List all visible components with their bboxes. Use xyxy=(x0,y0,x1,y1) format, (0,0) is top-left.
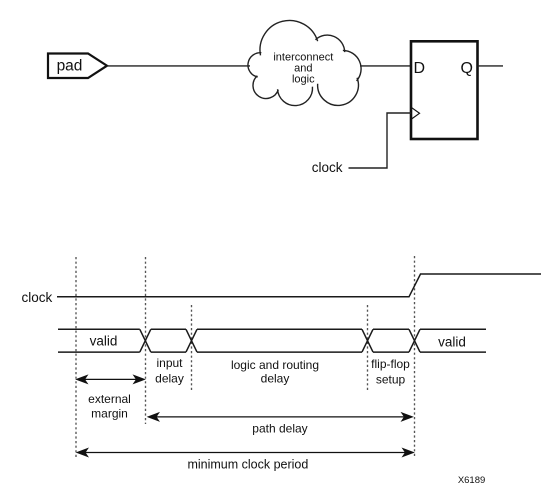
svg-text:minimum clock period: minimum clock period xyxy=(187,457,308,471)
svg-text:input: input xyxy=(156,356,183,370)
svg-text:logic: logic xyxy=(292,74,315,86)
svg-text:clock: clock xyxy=(312,160,343,175)
svg-text:margin: margin xyxy=(91,406,128,420)
svg-text:external: external xyxy=(88,392,131,406)
svg-text:delay: delay xyxy=(261,372,290,386)
svg-text:setup: setup xyxy=(376,372,406,386)
svg-text:valid: valid xyxy=(438,335,466,350)
svg-text:Q: Q xyxy=(461,60,473,77)
svg-text:clock: clock xyxy=(22,290,53,305)
svg-text:logic and routing: logic and routing xyxy=(231,358,319,372)
svg-text:flip-flop: flip-flop xyxy=(371,357,410,371)
svg-text:delay: delay xyxy=(155,371,184,385)
svg-text:valid: valid xyxy=(90,334,118,349)
svg-text:D: D xyxy=(414,60,426,77)
svg-text:path delay: path delay xyxy=(252,422,307,436)
svg-text:X6189: X6189 xyxy=(458,475,485,486)
svg-text:pad: pad xyxy=(57,58,83,75)
